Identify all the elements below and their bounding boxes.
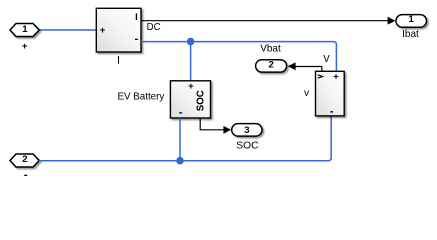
svg-text:+: +: [188, 81, 194, 92]
svg-text:+: +: [333, 71, 339, 82]
svg-text:v: v: [304, 88, 310, 99]
voltage sensor v output mark (> chevron): [318, 75, 323, 78]
output port 3 (SOC): [232, 124, 262, 137]
arrowhead into Vbat port: [288, 62, 296, 70]
connection port 1 (+) hexagon: [10, 24, 39, 37]
svg-text:SOC: SOC: [195, 90, 206, 111]
wire: port 1 to current sensor + input: [39, 29, 97, 31]
svg-text:+: +: [100, 25, 106, 36]
svg-text:2: 2: [22, 154, 27, 165]
wire DC: current sensor output to Ibat port: [141, 20, 389, 22]
junction node B: [176, 157, 184, 165]
junction node A: [187, 38, 195, 46]
svg-text:1: 1: [409, 14, 415, 25]
svg-text:-: -: [135, 33, 139, 45]
wire SOC: battery SOC output to port 3: [200, 118, 225, 130]
output port 2 (Vbat): [256, 60, 287, 72]
wire: current sensor - to voltage sensor + (top blue run): [141, 42, 336, 71]
svg-text:-: -: [330, 106, 334, 118]
svg-text:3: 3: [244, 125, 249, 136]
svg-text:-: -: [24, 169, 28, 181]
voltage sensor block U2: [316, 71, 345, 116]
wire: port 2 bottom bus to voltage sensor -: [39, 116, 331, 161]
arrowhead into Ibat: [388, 17, 396, 25]
svg-text:+: +: [22, 41, 28, 52]
svg-text:DC: DC: [147, 22, 161, 33]
wire: node A down to EV Battery +: [190, 42, 192, 81]
svg-text:Ibat: Ibat: [402, 29, 419, 40]
current sensor block U1: [96, 8, 141, 52]
connection port 2 (-) hexagon: [10, 154, 39, 167]
svg-text:2: 2: [268, 60, 273, 71]
wire: voltage sensor v output to Vbat port: [294, 67, 322, 72]
svg-text:-: -: [179, 107, 183, 119]
svg-text:I: I: [117, 55, 120, 67]
svg-text:I: I: [135, 12, 138, 23]
svg-text:EV Battery: EV Battery: [117, 91, 164, 102]
arrowhead into SOC port: [223, 126, 231, 134]
svg-text:V: V: [323, 54, 330, 65]
svg-text:SOC: SOC: [236, 141, 259, 152]
wire: EV Battery - down to bottom bus: [179, 118, 181, 161]
EV Battery block: [170, 81, 210, 118]
svg-text:1: 1: [22, 24, 28, 35]
svg-text:Vbat: Vbat: [260, 44, 281, 55]
output port 1 (Ibat): [396, 15, 427, 28]
